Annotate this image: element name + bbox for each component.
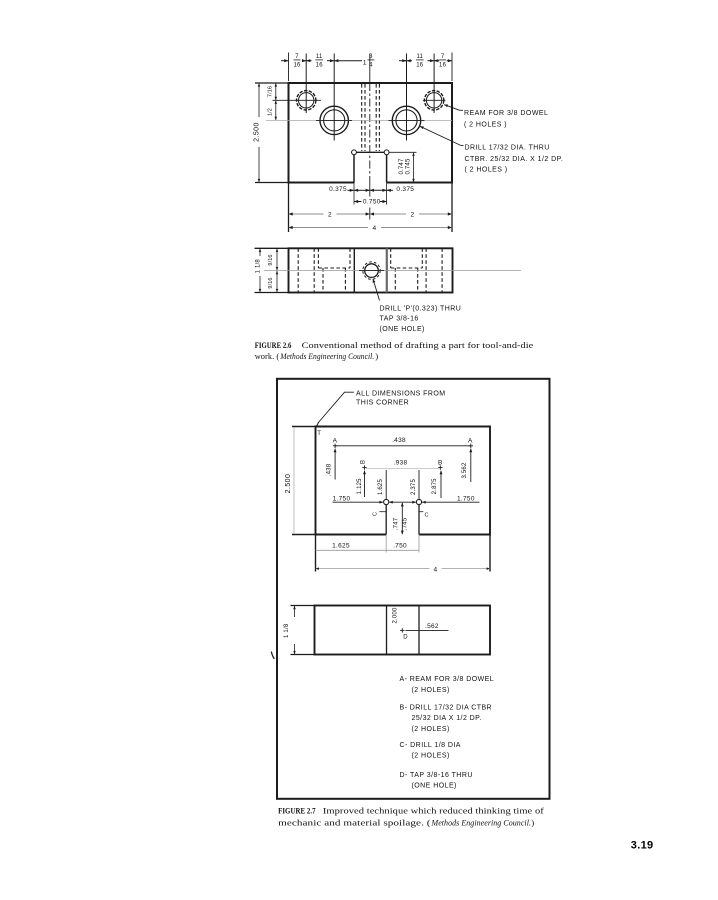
svg-text:DRILL 17/32 DIA. THRU: DRILL 17/32 DIA. THRU <box>465 144 550 151</box>
svg-text:9/16: 9/16 <box>268 277 274 288</box>
svg-text:3.562: 3.562 <box>462 462 468 478</box>
svg-text:): ) <box>375 351 378 361</box>
svg-text:A: A <box>468 437 473 444</box>
svg-text:B- DRILL 17/32 DIA CTBR: B- DRILL 17/32 DIA CTBR <box>400 705 493 712</box>
svg-text:THIS CORNER: THIS CORNER <box>356 399 409 406</box>
svg-text:( 2 HOLES ): ( 2 HOLES ) <box>465 166 508 173</box>
svg-text:1 1/8: 1 1/8 <box>284 623 290 638</box>
svg-text:4: 4 <box>434 566 438 573</box>
svg-text:0.745: 0.745 <box>406 158 412 174</box>
svg-text:11: 11 <box>416 54 423 60</box>
svg-text:(ONE HOLE): (ONE HOLE) <box>412 782 457 789</box>
svg-text:1.625: 1.625 <box>332 543 350 550</box>
svg-text:work. (: work. ( <box>255 351 280 361</box>
svg-text:FIGURE 2.7: FIGURE 2.7 <box>278 806 316 816</box>
svg-text:Improved technique which reduc: Improved technique which reduced thinkin… <box>323 806 544 816</box>
svg-text:T: T <box>317 431 321 437</box>
svg-text:7: 7 <box>295 54 299 60</box>
svg-text:Methods Engineering Council.: Methods Engineering Council. <box>431 818 531 828</box>
svg-text:B: B <box>438 460 443 467</box>
svg-text:REAM FOR 3/8 DOWEL: REAM FOR 3/8 DOWEL <box>464 110 548 117</box>
svg-text:16: 16 <box>316 63 324 69</box>
svg-text:C: C <box>373 512 379 516</box>
svg-text:1 1/8: 1 1/8 <box>255 259 261 274</box>
svg-text:Conventional method of draftin: Conventional method of drafting a part f… <box>302 340 534 350</box>
svg-text:2.500: 2.500 <box>285 474 292 494</box>
svg-text:(2 HOLES): (2 HOLES) <box>412 726 450 733</box>
svg-text:1.625: 1.625 <box>378 479 384 495</box>
svg-text:D- TAP 3/8-16 THRU: D- TAP 3/8-16 THRU <box>400 772 473 779</box>
svg-text:C: C <box>424 513 428 519</box>
svg-text:2: 2 <box>411 211 415 218</box>
svg-text:Methods Engineering Council.: Methods Engineering Council. <box>279 351 374 361</box>
svg-text:( 2 HOLES ): ( 2 HOLES ) <box>464 121 507 128</box>
svg-text:4: 4 <box>373 225 377 232</box>
svg-text:.562: .562 <box>425 623 439 630</box>
svg-text:1/2: 1/2 <box>267 108 273 116</box>
svg-text:3.19: 3.19 <box>631 840 654 852</box>
svg-text:A- REAM FOR 3/8 DOWEL: A- REAM FOR 3/8 DOWEL <box>400 676 495 683</box>
svg-text:): ) <box>531 818 534 828</box>
svg-text:16: 16 <box>439 63 447 69</box>
svg-text:0.750: 0.750 <box>363 199 381 206</box>
svg-text:.438: .438 <box>327 463 333 476</box>
svg-text:(2 HOLES): (2 HOLES) <box>412 687 450 694</box>
svg-text:TAP 3/8-16: TAP 3/8-16 <box>380 316 419 323</box>
svg-text:1: 1 <box>363 60 367 67</box>
svg-text:.745: .745 <box>402 517 408 530</box>
svg-text:.747: .747 <box>394 517 400 530</box>
svg-text:.938: .938 <box>394 459 408 466</box>
svg-text:2.500: 2.500 <box>253 122 260 142</box>
svg-text:4: 4 <box>369 63 373 69</box>
svg-text:A: A <box>333 437 338 444</box>
svg-text:1.125: 1.125 <box>357 478 363 494</box>
svg-text:7/16: 7/16 <box>267 86 273 97</box>
svg-text:(2 HOLES): (2 HOLES) <box>412 753 450 760</box>
svg-text:1.750: 1.750 <box>333 495 351 502</box>
svg-text:16: 16 <box>293 63 301 69</box>
svg-text:7: 7 <box>441 54 445 60</box>
svg-text:3: 3 <box>369 54 373 60</box>
svg-text:0.747: 0.747 <box>399 158 405 174</box>
svg-text:0.375: 0.375 <box>396 186 414 193</box>
svg-text:B: B <box>360 460 366 464</box>
svg-text:0.375: 0.375 <box>329 186 347 193</box>
svg-text:.750: .750 <box>393 543 407 550</box>
svg-text:2: 2 <box>328 211 332 218</box>
svg-text:D: D <box>403 635 408 641</box>
svg-text:2.375: 2.375 <box>411 479 417 495</box>
svg-text:mechanic and material spoilage: mechanic and material spoilage. ( <box>278 818 431 828</box>
svg-text:FIGURE 2.6: FIGURE 2.6 <box>255 340 292 350</box>
svg-text:(ONE HOLE): (ONE HOLE) <box>380 326 425 333</box>
svg-text:DRILL 'P'(0.323) THRU: DRILL 'P'(0.323) THRU <box>380 305 462 312</box>
svg-text:2.000: 2.000 <box>392 607 398 623</box>
svg-text:2.875: 2.875 <box>432 478 438 494</box>
svg-text:16: 16 <box>416 63 424 69</box>
svg-text:CTBR. 25/32 DIA. X 1/2 DP.: CTBR. 25/32 DIA. X 1/2 DP. <box>465 156 564 163</box>
svg-text:ALL DIMENSIONS FROM: ALL DIMENSIONS FROM <box>356 390 446 397</box>
svg-text:1.750: 1.750 <box>457 495 475 502</box>
svg-text:C- DRILL 1/8 DIA: C- DRILL 1/8 DIA <box>400 742 461 749</box>
svg-text:9/16: 9/16 <box>268 254 274 265</box>
svg-text:25/32 DIA X 1/2 DP.: 25/32 DIA X 1/2 DP. <box>412 715 482 722</box>
svg-text:.438: .438 <box>392 437 406 444</box>
svg-text:11: 11 <box>316 54 323 60</box>
